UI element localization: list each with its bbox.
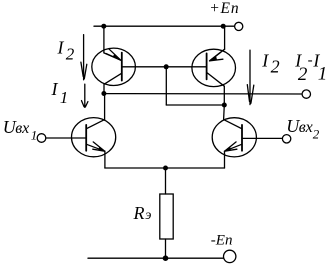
wire bottom -En rail: [88, 257, 223, 259]
terminal Uvx1: [37, 134, 46, 143]
node rail-resistor junction: [163, 255, 169, 261]
terminal +En: [235, 22, 243, 30]
svg-text:1: 1: [31, 127, 38, 142]
node mirror-collector junction: [222, 103, 227, 108]
label I1 left: [51, 79, 69, 107]
svg-text:вх: вх: [15, 120, 29, 137]
wire VT3 base lead: [46, 137, 86, 139]
svg-text:э: э: [145, 208, 151, 223]
wire emitter bus: [105, 167, 225, 169]
svg-text:вх: вх: [299, 119, 313, 136]
svg-text:I: I: [51, 79, 59, 99]
svg-text:1: 1: [318, 63, 328, 84]
node rail-left junction: [101, 24, 106, 29]
label +En: [209, 0, 239, 17]
svg-text:+En: +En: [209, 0, 239, 17]
arrow I1 left current: [82, 84, 88, 107]
wire VT4 emitter down: [224, 151, 226, 168]
svg-text:2: 2: [298, 64, 308, 85]
wire top +En rail: [94, 25, 234, 27]
transistor VT1 (top-left PNP): [92, 48, 136, 85]
terminal -En: [224, 250, 236, 262]
wire VT4 base lead: [242, 137, 282, 139]
svg-text:2: 2: [271, 56, 280, 76]
terminal output I2-I1: [302, 90, 310, 98]
wire resistor top lead: [165, 168, 167, 194]
wire VT4 collector up: [223, 105, 226, 120]
svg-text:1: 1: [60, 88, 69, 107]
svg-text:-: -: [308, 52, 313, 68]
svg-text:2: 2: [66, 45, 75, 64]
resistor Re: [160, 194, 173, 239]
transistor VT3 (bottom-left NPN): [72, 118, 116, 157]
label -En: [211, 233, 233, 249]
wire VT2 collector down: [223, 86, 225, 105]
svg-text:I: I: [261, 50, 269, 70]
svg-text:R: R: [133, 203, 145, 223]
svg-text:-En: -En: [211, 233, 233, 249]
label I2 left: [57, 37, 75, 63]
label Re: [133, 203, 152, 223]
wire output line to terminal: [104, 93, 302, 95]
terminal Uvx2: [282, 135, 290, 143]
wire VT2 emitter from rail: [224, 26, 226, 49]
wire VT3 emitter down: [104, 151, 106, 168]
transistor VT4 (bottom-right NPN): [212, 118, 256, 157]
wire VT3 collector up: [104, 94, 106, 120]
svg-text:2: 2: [313, 127, 320, 142]
label Uvx1: [3, 117, 38, 142]
label I2-I1 output current: [294, 50, 327, 85]
label Uvx2: [286, 116, 320, 141]
label I2 right: [261, 50, 279, 76]
node base junction: [164, 64, 169, 69]
wire VT1 collector down: [103, 84, 105, 93]
wire resistor bottom lead: [165, 239, 167, 258]
arrow I2 right current: [247, 50, 254, 104]
arrow I2 left current: [81, 35, 87, 80]
node rail-right junction: [221, 24, 226, 29]
wire base link VT1-VT2: [122, 66, 207, 68]
node emitter-resistor junction: [163, 166, 168, 171]
svg-text:I: I: [57, 37, 65, 57]
wire mirror step vertical: [165, 67, 167, 105]
wire mirror step horizontal: [166, 104, 224, 106]
node collector-output junction: [101, 91, 106, 96]
transistor VT2 (top-right PNP): [192, 49, 236, 86]
wire VT1 emitter from rail: [103, 26, 105, 53]
